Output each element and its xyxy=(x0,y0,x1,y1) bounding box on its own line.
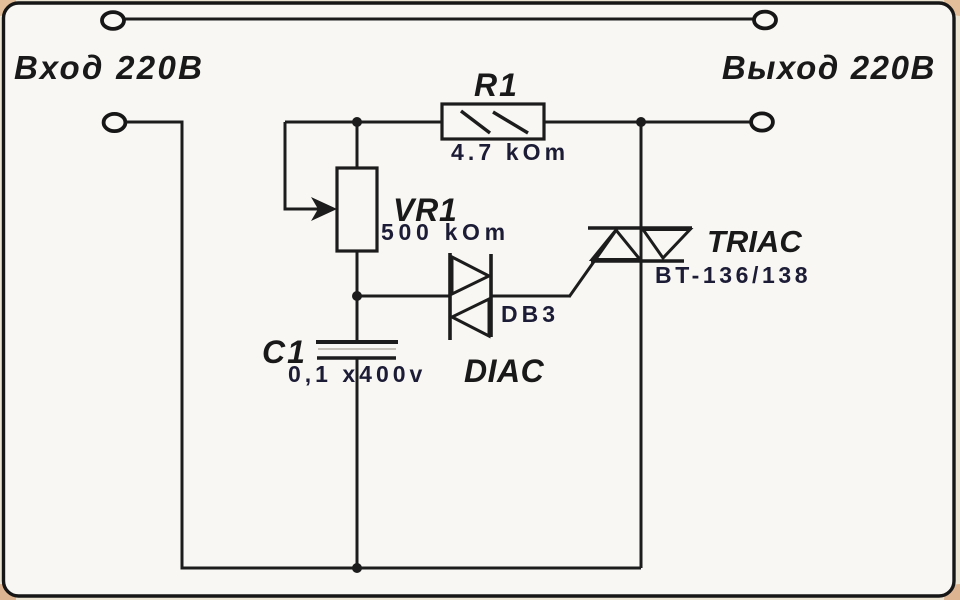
wire VR loop horizontal to R1 xyxy=(285,121,442,124)
diac DB3 right bar xyxy=(489,254,493,337)
capacitor C1 bottom plate xyxy=(317,356,396,359)
diac DB3 left bar xyxy=(448,253,452,340)
wire input to left drop xyxy=(126,122,182,568)
node dot top VR1 xyxy=(352,117,362,127)
node dot top triac xyxy=(636,117,646,127)
triac triangle up xyxy=(592,230,640,260)
output terminal top xyxy=(754,12,776,29)
triac gate diagonal xyxy=(569,229,617,297)
svg-text:0,1 x400v: 0,1 x400v xyxy=(288,361,426,387)
input terminal mid xyxy=(104,114,126,131)
triac bottom bar xyxy=(591,259,684,262)
wire R1 right to output terminal xyxy=(544,121,750,124)
wire node to VR1 top xyxy=(356,122,359,168)
svg-text:4.7 kOm: 4.7 kOm xyxy=(451,139,569,165)
VR1 wiper loop wire xyxy=(285,122,332,209)
corner peach accent bottom-left xyxy=(0,584,16,600)
capacitor C1 top plate xyxy=(316,340,398,344)
wire node to diac xyxy=(357,295,450,298)
svg-text:R1: R1 xyxy=(474,67,519,103)
node dot bottom xyxy=(352,563,362,573)
capacitor C1 plate ghost line xyxy=(318,348,396,350)
resistor R1 diagonal mark 1 xyxy=(461,111,490,133)
diac triangle upper xyxy=(452,257,489,294)
top wire xyxy=(125,18,753,21)
resistor R1 diagonal mark 2 xyxy=(493,112,528,133)
svg-text:BT-136/138: BT-136/138 xyxy=(655,262,811,288)
wire C1 to bottom xyxy=(356,358,359,568)
wire right vertical to triac xyxy=(640,122,643,568)
wire VR1 bottom to C1 xyxy=(356,251,359,342)
bottom wire xyxy=(181,567,642,570)
svg-text:TRIAC: TRIAC xyxy=(707,224,802,259)
input terminal top xyxy=(102,12,124,29)
triac triangle down xyxy=(643,230,690,259)
resistor R1 box xyxy=(442,104,544,139)
corner peach accent top-right xyxy=(944,0,960,16)
VR1 wiper arrow head xyxy=(311,197,337,221)
svg-text:DIAC: DIAC xyxy=(464,353,545,389)
corner peach accent bottom-right xyxy=(944,584,960,600)
output terminal mid xyxy=(751,113,773,130)
wire diac to gate elbow xyxy=(491,295,570,298)
node dot diac branch xyxy=(352,291,362,301)
triac top bar xyxy=(588,226,692,229)
diac triangle lower xyxy=(452,299,489,336)
svg-text:Вход 220В: Вход 220В xyxy=(14,49,204,86)
svg-text:Выход 220В: Выход 220В xyxy=(722,49,936,86)
svg-text:DB3: DB3 xyxy=(501,301,559,327)
potentiometer VR1 box xyxy=(337,168,377,251)
svg-text:500 kOm: 500 kOm xyxy=(381,219,510,245)
corner peach accent top-left xyxy=(0,0,16,16)
